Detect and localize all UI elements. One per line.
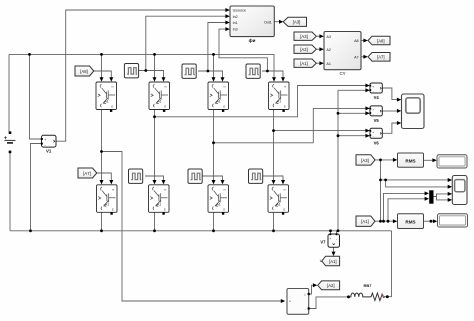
IGBT A1 (96, 82, 117, 112)
wire RMS1 out to display1 (424, 159, 433, 161)
goto tag A2 load current (318, 281, 340, 290)
svg-text:[A3]: [A3] (293, 20, 301, 25)
wire collector leg 1 (101, 54, 103, 79)
IGBT A4 (269, 82, 290, 112)
display D1 (437, 155, 467, 168)
display D2 (438, 214, 468, 227)
wire Out1 to goto A3 (274, 21, 279, 23)
wire neutral to V4 minus (338, 89, 366, 91)
pulse generator P3 (246, 64, 260, 78)
svg-text:[A1]: [A1] (300, 61, 307, 66)
wire emitter leg 2 (154, 212, 156, 231)
wire V7 minus stub (336, 231, 338, 234)
wire to scope2 in1 (381, 179, 449, 181)
goto tag A1 under V7 (320, 256, 340, 266)
pulse generator P5 (188, 169, 202, 183)
from tag A1 rms (356, 216, 375, 226)
wire mux in2 riser (388, 199, 425, 221)
svg-text:V1: V1 (46, 149, 52, 154)
wire gate A1 from tag A8 (94, 71, 112, 78)
subsystem U1 inverter control (230, 6, 274, 43)
svg-text:[A2]: [A2] (300, 47, 307, 52)
from tag A3 rms (356, 155, 375, 165)
IGBT A3 (208, 82, 229, 112)
wire gate A8 from pulse P6 (263, 176, 283, 181)
svg-text:A3: A3 (326, 35, 331, 39)
wire In2 tap (146, 16, 229, 70)
wire V1 minus input (31, 144, 42, 231)
wire emitter leg 1 (101, 212, 103, 231)
voltage measurement V6 (369, 128, 382, 145)
wire emitter leg 4 (273, 212, 275, 231)
wire phase D to V6 plus (274, 130, 367, 132)
IGBT A5 (97, 185, 118, 215)
wire battery top lead (8, 54, 10, 131)
svg-text:Usource: Usource (233, 9, 246, 13)
load block subsystem (287, 289, 310, 315)
wire top DC bus (9, 54, 274, 79)
wire battery bottom lead (9, 153, 11, 231)
wire midpoint leg 1 (101, 110, 103, 182)
svg-text:A2: A2 (326, 48, 331, 52)
wire phase C to V5 plus (214, 108, 367, 142)
port arrowheads down (100, 77, 336, 256)
svg-text:[A2]: [A2] (327, 283, 334, 288)
voltage measurement V5 (369, 106, 382, 123)
svg-text:[A7]: [A7] (83, 171, 90, 176)
wire gate A7 from pulse P5 (202, 176, 223, 181)
wire V4 out to scope1 (382, 88, 397, 100)
wire RB7 to node (384, 296, 387, 298)
svg-text:V7: V7 (320, 240, 326, 245)
wire A3 branch down (380, 160, 382, 221)
wire In1 tap (208, 23, 229, 72)
svg-text:+: + (329, 237, 331, 241)
goto tag A8 (368, 36, 390, 45)
wire midpoint leg 3 (213, 110, 215, 182)
wire V7 output down (333, 247, 335, 252)
wire from A3 tag to RMS1 (375, 159, 393, 161)
svg-text:[A1]: [A1] (329, 259, 336, 264)
IGBT A6 (149, 185, 170, 215)
wire gate A6 from pulse P4 (145, 176, 164, 181)
svg-text:A8: A8 (354, 39, 359, 43)
svg-text:RMS: RMS (405, 219, 415, 224)
svg-text:-: - (336, 237, 337, 241)
mux M1 (429, 190, 433, 203)
IGBT A8 (268, 185, 289, 215)
wire CY A8 out (361, 40, 364, 42)
wire V6 out to scope1 (382, 123, 397, 133)
goto tag A7 (368, 53, 390, 62)
from tag A7 gate drive (78, 168, 97, 178)
scope Scope2 (452, 176, 467, 205)
wire gate A4 from pulse P3 (262, 71, 283, 78)
svg-text:V6: V6 (374, 140, 380, 145)
voltage measurement V1 (41, 135, 56, 153)
svg-text:[A8]: [A8] (377, 38, 384, 43)
wire load i out to goto A2 (309, 285, 314, 294)
svg-text:V5: V5 (374, 118, 380, 123)
DC source battery (4, 131, 16, 153)
wire midpoint leg 2 (154, 110, 156, 182)
svg-text:[A7]: [A7] (377, 55, 384, 60)
wire emitter leg 3 (213, 212, 215, 231)
block RMS2 (398, 214, 424, 229)
wire from A3 to CY (316, 35, 320, 37)
svg-text:RMS: RMS (405, 158, 415, 163)
wire V7 plus stub (330, 231, 332, 234)
goto tag A3 (283, 17, 306, 26)
from tag A1 (294, 59, 316, 67)
wire from A1 tag to RMS2 (375, 220, 393, 222)
pulse generator P4 (129, 169, 143, 183)
wire gate A2 from pulse P1 (139, 71, 164, 79)
wire gate A3 from pulse P2 (198, 71, 223, 78)
wire neutral to V6 minus (338, 135, 366, 137)
svg-text:CY: CY (339, 71, 345, 76)
svg-text:V4: V4 (374, 95, 380, 100)
wire midpoint leg 4 (273, 110, 275, 182)
svg-text:U: U (320, 258, 323, 263)
wire RB7 right riser (387, 231, 391, 297)
pulse generator P6 (249, 169, 263, 183)
block RMS1 (398, 153, 424, 167)
wire load to RB7 (309, 297, 352, 309)
port arrowheads right (225, 8, 452, 303)
wire mux out branch scope2 in4 (437, 194, 449, 200)
wire gate A5 from tag A7 (97, 173, 112, 181)
svg-text:[A1]: [A1] (361, 219, 368, 224)
pulse generator P2 (182, 64, 196, 78)
svg-text:+: + (289, 300, 291, 304)
voltage measurement V4 (369, 83, 382, 100)
svg-text:+: + (45, 138, 47, 142)
svg-text:-: - (305, 307, 306, 311)
svg-text:In3: In3 (233, 28, 238, 32)
wire bottom bus (10, 230, 392, 232)
svg-text:A7: A7 (354, 55, 359, 59)
wire V1 output to Usource (56, 10, 229, 141)
wire collector leg 2 (154, 54, 156, 79)
wire V1 plus input (30, 54, 42, 139)
svg-text:[A8]: [A8] (80, 69, 87, 74)
wire collector leg 3 (213, 54, 215, 79)
wire phase B to V4 plus (155, 86, 367, 117)
from tag A2 (294, 45, 316, 53)
series RLC branch RB7 (351, 283, 385, 301)
svg-text:RB7: RB7 (363, 283, 372, 288)
from tag A3 (294, 32, 316, 40)
svg-text:фи: фи (249, 37, 256, 43)
wire phase A output to load (102, 152, 282, 302)
wire RMS2 out to display2 (424, 220, 434, 222)
voltage measurement V7 (320, 233, 339, 247)
wire to scope2 in2 (386, 180, 449, 187)
wire V5 out to scope1 (382, 110, 397, 112)
svg-text:[A3]: [A3] (361, 158, 368, 163)
wire In3 tap (219, 29, 267, 71)
wire mux out to scope2 (434, 194, 449, 197)
wire mux in1 riser (384, 193, 425, 221)
wire from A2 to CY (316, 48, 320, 50)
wire neutral to V5 minus (338, 112, 366, 114)
svg-text:A1: A1 (326, 62, 331, 66)
svg-text:[A3]: [A3] (300, 34, 307, 39)
scope Scope1 (402, 94, 425, 129)
IGBT A7 (208, 185, 229, 215)
wire neutral vertical (337, 90, 339, 231)
svg-text:In1: In1 (233, 21, 238, 25)
IGBT A2 (149, 82, 170, 112)
pulse generator P1 (124, 64, 138, 78)
svg-text:-: - (45, 143, 46, 147)
wire from A1 to CY (316, 62, 320, 64)
from tag A8 gate drive (75, 66, 94, 76)
block CY (324, 32, 361, 77)
svg-text:In2: In2 (233, 15, 238, 19)
wire CY A7 out (361, 56, 364, 58)
svg-text:Out1: Out1 (264, 20, 272, 24)
